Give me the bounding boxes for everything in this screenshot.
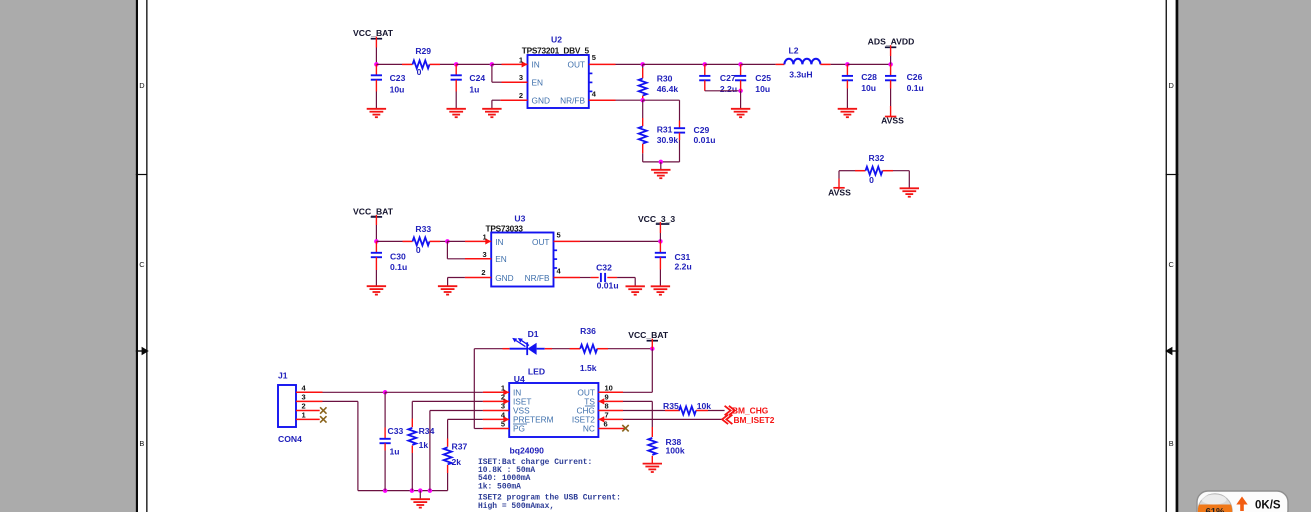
svg-text:5: 5 — [592, 53, 596, 62]
resistor R32 — [855, 153, 893, 185]
svg-text:1u: 1u — [390, 447, 400, 457]
svg-text:IN: IN — [495, 237, 503, 247]
svg-text:VCC_BAT: VCC_BAT — [628, 330, 669, 340]
resistor R34 — [408, 401, 434, 453]
pin 4 U2 NR/FB — [589, 90, 616, 101]
wire — [705, 63, 741, 65]
svg-text:R30: R30 — [657, 73, 673, 83]
svg-text:D1: D1 — [528, 329, 539, 339]
wire — [659, 270, 661, 287]
node F — [845, 62, 850, 67]
wire — [323, 400, 358, 402]
power port VCC_BAT (U3) — [353, 206, 394, 225]
power port VCC_3_3 — [638, 214, 675, 233]
svg-text:B: B — [139, 439, 144, 448]
node C — [490, 62, 495, 67]
wire — [491, 64, 493, 82]
node H — [738, 89, 743, 94]
power port AVSS (R32) — [828, 179, 851, 198]
wire — [908, 171, 910, 189]
svg-text:C24: C24 — [469, 73, 485, 83]
wire — [623, 391, 652, 393]
pin 5 U4 PG — [483, 420, 509, 429]
svg-text:VCC_3_3: VCC_3_3 — [638, 214, 675, 224]
wire — [617, 277, 635, 279]
svg-text:1: 1 — [302, 410, 306, 419]
svg-text:0K/S: 0K/S — [1255, 500, 1281, 512]
pin 10 U4 OUT — [598, 383, 623, 392]
wire — [616, 99, 643, 101]
pin 1 U2 IN — [502, 55, 528, 67]
svg-text:46.4k: 46.4k — [657, 84, 679, 94]
svg-text:10u: 10u — [390, 84, 405, 94]
svg-text:1u: 1u — [469, 84, 479, 94]
wire — [679, 100, 681, 120]
ground — [626, 286, 645, 294]
svg-text:3.3uH: 3.3uH — [789, 70, 812, 80]
node g3 — [418, 488, 423, 493]
capacitor C31 — [655, 241, 692, 271]
pin 4 U4 PRETERM — [483, 410, 509, 422]
svg-text:C: C — [139, 260, 145, 269]
node VBUS — [383, 390, 388, 395]
pin 3 U3 EN — [465, 250, 491, 259]
wire — [580, 277, 591, 279]
svg-text:10u: 10u — [755, 84, 770, 94]
wire — [448, 277, 465, 279]
wire — [384, 392, 386, 427]
wire — [616, 63, 643, 65]
wire — [893, 170, 909, 172]
wire — [375, 270, 377, 286]
wire — [705, 90, 741, 92]
svg-text:C29: C29 — [694, 125, 710, 135]
wire — [643, 161, 680, 163]
ground — [731, 109, 750, 117]
svg-text:2: 2 — [481, 268, 485, 277]
wire — [447, 258, 465, 260]
svg-text:R29: R29 — [415, 46, 431, 56]
wire — [890, 89, 892, 107]
wire — [474, 428, 483, 430]
pin 5 U3 OUT — [554, 230, 581, 241]
wire — [376, 63, 402, 65]
wire — [651, 401, 653, 427]
wire — [440, 63, 456, 65]
svg-text:VCC_BAT: VCC_BAT — [353, 206, 394, 216]
svg-text:0: 0 — [416, 245, 421, 255]
svg-text:3: 3 — [519, 73, 523, 82]
svg-text:U4: U4 — [514, 374, 525, 384]
wire — [846, 89, 848, 109]
wire — [447, 278, 449, 287]
wire — [890, 56, 892, 64]
ground — [438, 286, 457, 294]
resistor R31 — [639, 100, 679, 153]
svg-text:2.2u: 2.2u — [675, 262, 692, 272]
svg-text:2: 2 — [302, 402, 306, 411]
node OUT2 — [640, 62, 645, 67]
wire — [411, 401, 413, 418]
svg-text:bq24090: bq24090 — [510, 445, 545, 455]
wire — [385, 391, 483, 393]
pin 4 J1 — [296, 383, 323, 392]
pin 3 U2 EN — [502, 73, 528, 82]
regulator U2 TPS73201_DBV_5 — [522, 35, 593, 108]
ground — [838, 109, 857, 117]
pin 9 U4 TS — [598, 392, 623, 404]
wire — [651, 349, 653, 393]
capacitor C29 — [643, 100, 716, 145]
resistor R33 — [403, 224, 441, 255]
wire — [375, 48, 377, 65]
pin 2 U3 GND — [465, 268, 491, 278]
wire — [447, 240, 465, 242]
pin 1 U4 IN — [483, 383, 509, 395]
wire — [634, 278, 636, 287]
svg-text:61%: 61% — [1205, 507, 1225, 512]
svg-text:C: C — [1169, 260, 1175, 269]
node B — [454, 62, 459, 67]
capacitor C27 — [699, 64, 737, 94]
resistor R37 — [444, 419, 468, 473]
svg-text:R33: R33 — [415, 224, 431, 234]
svg-text:U3: U3 — [514, 214, 525, 224]
wire — [376, 240, 402, 242]
svg-text:10u: 10u — [861, 83, 876, 93]
svg-text:0.01u: 0.01u — [597, 281, 619, 291]
svg-text:OUT: OUT — [567, 59, 585, 69]
capacitor C23 — [371, 64, 406, 94]
wire — [740, 91, 742, 109]
svg-text:VCC_BAT: VCC_BAT — [353, 28, 394, 38]
wire — [446, 241, 448, 258]
svg-text:C27: C27 — [720, 73, 736, 83]
regulator U3 TPS73033 — [486, 214, 558, 287]
capacitor C32 — [591, 263, 619, 291]
svg-text:8: 8 — [605, 402, 609, 411]
node GND1 — [659, 160, 664, 165]
node FB — [640, 98, 645, 103]
diode D1 LED — [474, 329, 552, 376]
ground — [643, 464, 662, 472]
wire — [679, 140, 681, 162]
ground — [411, 499, 430, 507]
pin 3 U4 VSS — [483, 402, 509, 411]
svg-text:ADS_AVDD: ADS_AVDD — [868, 36, 915, 46]
svg-text:R36: R36 — [580, 326, 596, 336]
svg-text:0: 0 — [869, 175, 874, 185]
svg-text:3: 3 — [501, 402, 505, 411]
node g4 — [428, 488, 433, 493]
svg-text:EN: EN — [495, 254, 507, 264]
power port AVSS — [881, 106, 904, 126]
capacitor C28 — [842, 64, 877, 93]
svg-text:D: D — [139, 81, 144, 90]
svg-text:3: 3 — [302, 392, 306, 401]
svg-text:5: 5 — [557, 230, 561, 239]
svg-text:1k: 1k — [419, 440, 429, 450]
wire — [411, 453, 413, 491]
svg-text:R31: R31 — [657, 125, 673, 135]
node g1 — [383, 488, 388, 493]
svg-text:C31: C31 — [675, 252, 691, 262]
wire — [492, 99, 500, 101]
node g2 — [410, 488, 415, 493]
svg-text:1: 1 — [483, 232, 487, 241]
wire — [429, 411, 431, 491]
wire — [580, 240, 660, 242]
svg-text:2: 2 — [519, 91, 523, 100]
wire — [456, 63, 492, 65]
svg-text:NR/FB: NR/FB — [560, 95, 585, 105]
node A — [374, 62, 379, 67]
node J — [445, 239, 450, 244]
svg-text:AVSS: AVSS — [881, 116, 904, 126]
capacitor C33 — [380, 392, 404, 456]
svg-text:0.1u: 0.1u — [907, 83, 924, 93]
wire — [741, 63, 776, 65]
wire — [847, 63, 890, 65]
wire — [660, 162, 662, 170]
svg-text:100k: 100k — [666, 446, 685, 456]
inductor L2 — [776, 46, 831, 80]
pin 4 U3 NR/FB — [554, 267, 581, 278]
power port VCC_BAT (charger) — [628, 330, 669, 349]
svg-text:0: 0 — [417, 67, 422, 77]
wire — [839, 170, 855, 172]
node E — [738, 62, 743, 67]
svg-text:C33: C33 — [388, 426, 404, 436]
pin 2 J1 no-connect — [296, 402, 327, 414]
svg-text:C23: C23 — [390, 73, 406, 83]
svg-text:C28: C28 — [861, 72, 877, 82]
wire — [708, 410, 725, 412]
capacitor C25 — [735, 64, 771, 94]
svg-text:5: 5 — [501, 420, 505, 429]
svg-text:L2: L2 — [788, 46, 798, 56]
pin 6 U4 NC no-connect — [598, 420, 628, 432]
wire — [642, 100, 644, 118]
svg-text:High = 500mAmax,: High = 500mAmax, — [478, 502, 554, 511]
wire — [552, 348, 570, 350]
ground — [482, 109, 501, 117]
pin 2 U4 ISET — [483, 392, 509, 404]
ground — [447, 109, 466, 117]
svg-text:NC: NC — [583, 424, 595, 434]
pin 1 U3 IN — [465, 232, 491, 244]
svg-text:0.1u: 0.1u — [390, 262, 407, 272]
pin 8 U4 CHG — [598, 402, 623, 411]
resistor R36 — [570, 326, 609, 373]
wire — [447, 419, 449, 438]
svg-text:LED: LED — [528, 366, 545, 376]
svg-text:BM_ISET2: BM_ISET2 — [734, 415, 775, 425]
wire — [623, 410, 665, 412]
svg-text:EN: EN — [532, 77, 544, 87]
capacitor C26 — [885, 64, 924, 93]
pin 5 U2 OUT — [589, 53, 616, 64]
svg-text:2k: 2k — [452, 457, 462, 467]
svg-text:10k: 10k — [697, 401, 712, 411]
resistor R30 — [639, 64, 679, 100]
wire — [642, 64, 644, 68]
node D — [703, 62, 708, 67]
pin 3 J1 — [296, 392, 323, 401]
ground — [651, 286, 670, 294]
note ISET text — [478, 458, 621, 511]
svg-text:U2: U2 — [551, 35, 562, 45]
svg-text:B: B — [1169, 439, 1174, 448]
ground — [367, 109, 386, 117]
svg-text:C25: C25 — [755, 73, 771, 83]
svg-text:1: 1 — [501, 383, 505, 392]
svg-text:GND: GND — [495, 273, 513, 283]
ground — [367, 286, 386, 294]
node G — [888, 62, 893, 67]
svg-text:J1: J1 — [278, 370, 288, 380]
wire — [643, 63, 705, 65]
svg-text:1: 1 — [519, 55, 523, 64]
svg-text:C30: C30 — [390, 252, 406, 262]
wire — [838, 171, 840, 179]
charger U4 bq24090 — [509, 374, 598, 455]
pin 2 U2 GND — [500, 91, 527, 100]
wire — [623, 418, 722, 420]
svg-text:R37: R37 — [452, 442, 468, 452]
svg-text:CON4: CON4 — [278, 434, 302, 444]
wire — [375, 225, 377, 241]
svg-text:IN: IN — [532, 59, 540, 69]
svg-text:TPS73033: TPS73033 — [486, 224, 524, 234]
wire — [430, 410, 483, 412]
wire — [473, 349, 475, 429]
connector J1 CON4 — [278, 370, 302, 444]
wire — [492, 63, 502, 65]
svg-text:R34: R34 — [419, 426, 435, 436]
wire — [608, 348, 652, 350]
svg-text:30.9k: 30.9k — [657, 135, 679, 145]
svg-text:9: 9 — [605, 392, 609, 401]
wire — [659, 233, 661, 241]
svg-text:1.5k: 1.5k — [580, 363, 597, 373]
port BM_ISET2 — [722, 415, 775, 425]
wire — [357, 401, 359, 490]
wire — [419, 491, 421, 500]
power port VCC_BAT — [353, 28, 394, 47]
svg-text:10: 10 — [605, 383, 613, 392]
capacitor C24 — [451, 64, 486, 94]
svg-text:7: 7 — [605, 410, 609, 419]
svg-text:C32: C32 — [596, 263, 612, 273]
wire — [447, 473, 449, 491]
node VCC33 — [658, 239, 663, 244]
wire — [358, 490, 448, 492]
wire — [448, 418, 483, 420]
svg-text:1k: 500mA: 1k: 500mA — [478, 483, 521, 492]
wire — [642, 153, 644, 162]
wire — [455, 92, 457, 109]
svg-text:OUT: OUT — [532, 237, 550, 247]
wire — [492, 81, 502, 83]
svg-text:R32: R32 — [869, 153, 885, 163]
wire — [831, 63, 848, 65]
svg-text:PG: PG — [513, 424, 525, 434]
svg-text:2.2u: 2.2u — [720, 84, 737, 94]
svg-text:D: D — [1169, 81, 1174, 90]
svg-text:R35: R35 — [663, 401, 679, 411]
port BM_CHG — [725, 406, 769, 416]
wire — [412, 400, 483, 402]
pin 1 J1 no-connect — [296, 410, 327, 422]
capacitor C30 — [371, 241, 407, 272]
ground — [900, 188, 919, 196]
wire — [440, 240, 447, 242]
power port ADS_AVDD — [868, 36, 915, 56]
svg-text:0.01u: 0.01u — [694, 135, 716, 145]
resistor R35 — [663, 401, 711, 414]
wire — [375, 92, 377, 109]
wire — [643, 99, 680, 101]
svg-text:3: 3 — [483, 250, 487, 259]
wire — [384, 451, 386, 491]
node VBAT — [650, 346, 655, 351]
svg-text:C26: C26 — [907, 72, 923, 82]
resistor R38 — [648, 427, 685, 464]
resistor R29 — [402, 46, 440, 77]
svg-text:NR/FB: NR/FB — [525, 273, 550, 283]
svg-text:2: 2 — [501, 392, 505, 401]
wire — [623, 400, 652, 402]
wire — [323, 391, 386, 393]
ground — [651, 170, 670, 178]
node I — [374, 239, 379, 244]
svg-text:6: 6 — [604, 420, 608, 429]
wire — [474, 348, 502, 350]
wire — [491, 100, 493, 109]
svg-text:TPS73201_DBV_5: TPS73201_DBV_5 — [522, 45, 590, 55]
pin 7 U4 ISET2 — [598, 410, 623, 422]
svg-text:GND: GND — [532, 95, 550, 105]
